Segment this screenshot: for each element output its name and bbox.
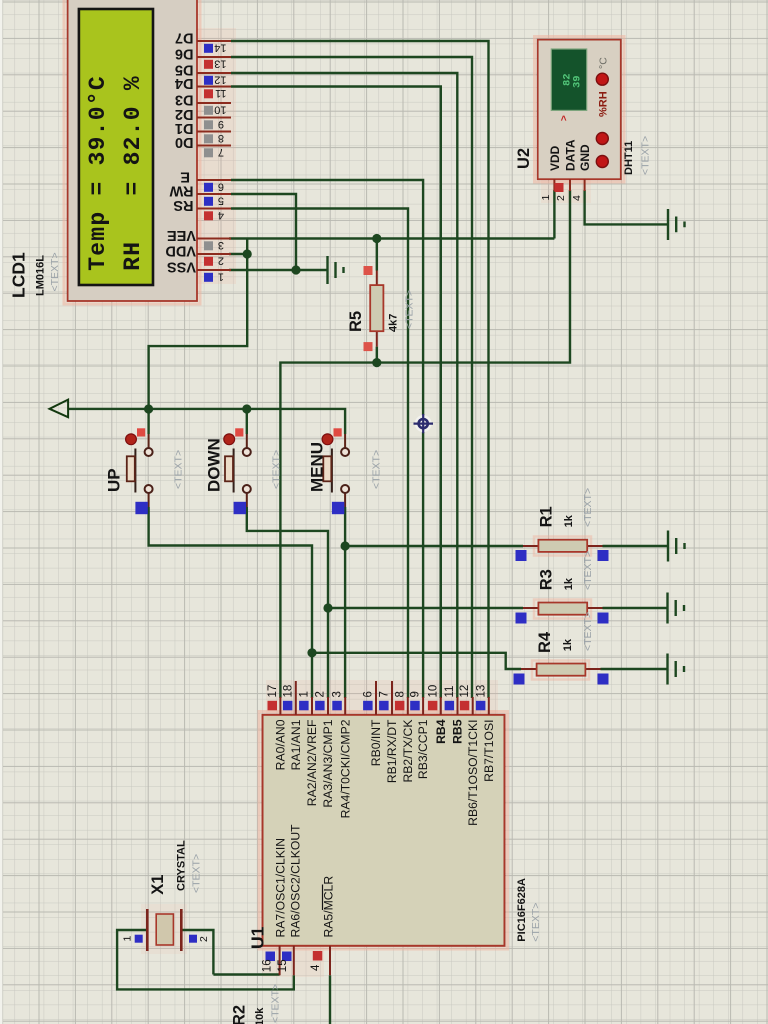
DHT11 pin name DATA xyxy=(564,139,578,171)
ground symbols xyxy=(328,209,685,685)
wire D4 LCD pin11 to PIC pin10 xyxy=(231,87,441,699)
svg-text:14: 14 xyxy=(214,42,226,54)
svg-text:DATA: DATA xyxy=(564,139,578,171)
svg-text:1: 1 xyxy=(218,271,224,283)
svg-text:VDD: VDD xyxy=(548,145,562,171)
LCD pin squares xyxy=(204,44,213,282)
svg-text:6: 6 xyxy=(218,181,224,193)
svg-text:D6: D6 xyxy=(175,46,194,62)
resistor R4 xyxy=(514,664,609,685)
label R2 xyxy=(230,1005,248,1024)
ground at R3 xyxy=(668,593,685,624)
svg-text:4: 4 xyxy=(218,209,224,221)
svg-text:<TEXT>: <TEXT> xyxy=(582,551,594,590)
button DOWN xyxy=(224,428,251,514)
resistor pin stubs xyxy=(377,271,603,670)
label R3 xyxy=(538,569,556,590)
DHT11 pin number 2 xyxy=(555,195,567,201)
DHT11 %RH label xyxy=(598,91,610,117)
label R3 1k xyxy=(563,577,575,590)
svg-text:<TEXT>: <TEXT> xyxy=(582,488,594,527)
svg-text:MENU: MENU xyxy=(308,442,327,492)
LCD1 LM016L display module xyxy=(68,0,197,301)
svg-text:39: 39 xyxy=(572,75,584,88)
LCD pin names D7..VSS xyxy=(165,30,196,275)
wire DOWN net to R3 xyxy=(328,607,523,609)
svg-text:3: 3 xyxy=(218,239,224,251)
svg-text:4k7: 4k7 xyxy=(388,314,400,332)
wire DHT11 DATA to PIC pin17 xyxy=(280,190,570,698)
U1 pin number 6 xyxy=(363,691,375,697)
svg-text:%RH: %RH xyxy=(598,91,610,117)
svg-text:PIC16F628A: PIC16F628A xyxy=(516,878,528,942)
U1 pin number 4 xyxy=(310,964,322,971)
svg-text:2: 2 xyxy=(315,691,327,697)
U1 pin name RB6/T1OSO/T1CKI xyxy=(466,720,480,826)
svg-text:U1: U1 xyxy=(248,926,268,949)
label U1 xyxy=(248,926,268,949)
U1 pin number 9 xyxy=(410,691,422,697)
U1 pin name RB7/T1OSI xyxy=(482,720,496,782)
svg-text:8: 8 xyxy=(394,691,406,697)
U1 top pin squares xyxy=(268,701,486,711)
DHT11 pin number 1 xyxy=(540,195,552,201)
svg-text:4: 4 xyxy=(571,195,583,201)
U1 pin name RA2/AN2/VREF xyxy=(305,720,319,807)
svg-text:RW: RW xyxy=(169,183,193,199)
svg-text:R1: R1 xyxy=(538,506,556,527)
wire PIC pin4 MCLR down xyxy=(329,975,331,1024)
U1 pin number 17 xyxy=(267,685,279,698)
origin marker xyxy=(414,414,434,433)
label R1 TEXT xyxy=(582,488,594,527)
svg-text:5: 5 xyxy=(218,195,224,207)
junction DOWN-R3 node xyxy=(323,603,332,612)
DHT11 LED dots xyxy=(596,73,608,167)
DHT11 pin name GND xyxy=(578,144,592,171)
junction RW-VSS node xyxy=(291,265,300,274)
svg-text:D0: D0 xyxy=(175,134,194,150)
svg-text:1: 1 xyxy=(299,691,311,697)
wire UP net to R4 xyxy=(312,653,521,669)
svg-text:UP: UP xyxy=(105,468,124,492)
label R1 xyxy=(538,506,556,527)
DHT11 pin number 4 xyxy=(571,195,583,201)
X1 pin2 square and number xyxy=(189,935,210,943)
resistor R5 xyxy=(364,266,384,351)
LCD pins block xyxy=(165,30,231,283)
wire UP button to PIC pin1 xyxy=(149,507,312,698)
svg-text:16: 16 xyxy=(261,959,273,972)
U1 pin number 7 xyxy=(379,691,391,697)
X1 pin1 square and number xyxy=(121,935,142,943)
svg-text:12: 12 xyxy=(214,74,226,86)
svg-text:15: 15 xyxy=(277,959,289,972)
wire MENU net to R1 xyxy=(345,545,523,547)
svg-text:17: 17 xyxy=(267,685,279,698)
svg-text:R4: R4 xyxy=(536,631,554,653)
wire crystal X1 pin2 to PIC pin16 xyxy=(181,930,279,975)
svg-text:Temp = 39.0°C: Temp = 39.0°C xyxy=(85,75,111,271)
svg-text:RB6/T1OSO/T1CKI: RB6/T1OSO/T1CKI xyxy=(466,720,480,826)
svg-text:RA1/AN1: RA1/AN1 xyxy=(289,719,303,770)
svg-text:1k: 1k xyxy=(562,638,574,651)
svg-text:1: 1 xyxy=(540,195,552,201)
button MENU xyxy=(322,428,349,514)
DHT11 reading 82 xyxy=(562,73,574,86)
svg-text:18: 18 xyxy=(282,685,294,698)
wire R4 to ground xyxy=(601,668,668,670)
svg-text:1k: 1k xyxy=(563,577,575,590)
label R3 TEXT xyxy=(582,551,594,590)
label UP xyxy=(105,468,124,492)
svg-text:RA5/MCLR: RA5/MCLR xyxy=(322,876,336,938)
wire D6 LCD pin13 to PIC pin12 xyxy=(231,57,472,698)
svg-text:D2: D2 xyxy=(175,106,194,122)
junction UP-R4 node xyxy=(307,648,316,657)
svg-text:RA7/OSC1/CLKIN: RA7/OSC1/CLKIN xyxy=(274,838,288,938)
svg-text:R3: R3 xyxy=(538,569,556,590)
DHT11 degC label xyxy=(597,57,609,69)
junction VDD-VEE node xyxy=(243,249,252,258)
svg-text:RB2/TX/CK: RB2/TX/CK xyxy=(401,720,415,783)
U1 pin name RB0/INT xyxy=(369,719,383,766)
U1 left pin stubs xyxy=(280,946,330,976)
wire R5 leads xyxy=(376,239,378,363)
svg-text:D7: D7 xyxy=(175,30,194,46)
ground at R1 xyxy=(668,531,685,562)
U1 pin name RB3/CCP1 xyxy=(416,719,430,779)
wire MENU button to PIC pin3 xyxy=(344,507,346,698)
label R5 TEXT xyxy=(403,290,415,329)
svg-text:9: 9 xyxy=(218,118,224,130)
svg-text:D4: D4 xyxy=(175,75,194,91)
U1 pin number 8 xyxy=(394,691,406,697)
svg-text:RB7/T1OSI: RB7/T1OSI xyxy=(482,720,496,782)
wire VSS ground line xyxy=(229,269,328,271)
svg-text:VEE: VEE xyxy=(167,227,196,243)
U1 pin number 2 xyxy=(315,691,327,697)
LCD text line1 Temp = 39.0°C xyxy=(85,75,111,271)
wire R3 to ground xyxy=(603,607,668,609)
svg-text:13: 13 xyxy=(214,58,226,70)
svg-text:10: 10 xyxy=(214,104,226,116)
label 4k7 xyxy=(388,314,400,332)
svg-text:1k: 1k xyxy=(563,514,575,527)
svg-text:<TEXT>: <TEXT> xyxy=(582,612,594,651)
wire D5 LCD pin12 to PIC pin11 xyxy=(231,73,457,698)
LCD text line2 RH = 82.0 % xyxy=(120,75,146,271)
microcontroller U1 PIC16F628A xyxy=(263,715,505,946)
svg-text:12: 12 xyxy=(459,685,471,698)
svg-text:U2: U2 xyxy=(515,148,533,169)
svg-text:<TEXT>: <TEXT> xyxy=(173,450,185,489)
U1 pin name RA5/MCLR xyxy=(322,876,336,938)
svg-text:2: 2 xyxy=(555,195,567,201)
wire VCC line to buttons xyxy=(68,409,345,434)
label UP TEXT xyxy=(173,450,185,489)
svg-text:VDD: VDD xyxy=(165,243,196,259)
label R2 10k xyxy=(254,1007,266,1024)
U1 pin name RB5 xyxy=(451,719,465,744)
wire R1 to ground xyxy=(603,545,669,547)
junction MENU-R1 node xyxy=(341,541,350,550)
button pin stubs xyxy=(149,434,346,507)
DHT11 pin name VDD xyxy=(548,145,562,171)
label X1 xyxy=(149,875,167,895)
label X1 TEXT xyxy=(191,854,203,893)
DHT11 pin stubs xyxy=(554,179,584,191)
ground at DHT11 GND xyxy=(668,209,685,240)
power arrow VCC xyxy=(50,400,69,418)
svg-text:RA2/AN2/VREF: RA2/AN2/VREF xyxy=(305,720,319,807)
label LM016L xyxy=(34,255,46,296)
LCD pin stubs xyxy=(197,41,231,270)
svg-text:RA4/T0CKI/CMP2: RA4/T0CKI/CMP2 xyxy=(338,719,352,818)
label R1 1k xyxy=(563,514,575,527)
U1 pin name RA7/OSC1/CLKIN xyxy=(274,838,288,938)
svg-text:LM016L: LM016L xyxy=(34,255,46,296)
svg-text:8: 8 xyxy=(218,132,224,144)
wire DHT11 GND to ground xyxy=(585,190,668,224)
svg-text:6: 6 xyxy=(363,691,375,697)
resistor R1 xyxy=(516,540,609,561)
DHT11 pin2 square xyxy=(555,183,564,192)
svg-text:RA3/AN3/CMP1: RA3/AN3/CMP1 xyxy=(321,719,335,807)
label DHT11 TEXT xyxy=(640,136,652,175)
svg-text:CRYSTAL: CRYSTAL xyxy=(175,840,187,891)
svg-text:9: 9 xyxy=(410,691,422,697)
U1 top pin stubs xyxy=(280,681,488,715)
label R4 1k xyxy=(562,638,574,651)
label DOWN xyxy=(205,438,224,492)
U1 pin number 3 xyxy=(332,691,344,697)
svg-text:4: 4 xyxy=(310,964,322,971)
wire RW LCD pin5 to VSS net xyxy=(231,194,296,270)
svg-text:<TEXT>: <TEXT> xyxy=(530,903,542,942)
U1 pin number 16 xyxy=(261,959,273,972)
junction VCC-DOWN node xyxy=(242,404,251,413)
DHT11 reading 39 xyxy=(572,75,584,88)
U1 pin name RB2/TX/CK xyxy=(401,720,415,783)
svg-text:VSS: VSS xyxy=(167,259,196,275)
svg-text:10k: 10k xyxy=(254,1007,266,1024)
svg-text:13: 13 xyxy=(475,685,487,698)
label LCD1 TEXT xyxy=(49,252,61,291)
crystal X1 xyxy=(147,909,181,951)
svg-text:2: 2 xyxy=(218,255,224,267)
label U2 xyxy=(515,148,533,169)
DHT11 sensor U2 xyxy=(538,40,621,180)
U1 pin number 10 xyxy=(427,685,439,698)
label R4 TEXT xyxy=(582,612,594,651)
svg-text:GND: GND xyxy=(578,144,592,171)
svg-text:R2: R2 xyxy=(230,1005,248,1024)
wire crystal X1 pin1 to PIC pin15 xyxy=(117,930,294,989)
svg-text:11: 11 xyxy=(215,87,226,99)
label PIC16F628A xyxy=(516,878,528,942)
U1 pin number 15 xyxy=(277,959,289,972)
button UP xyxy=(126,428,153,514)
U1 pin name RA4/T0CKI/CMP2 xyxy=(338,719,352,818)
resistor R3 xyxy=(516,603,609,624)
svg-text:RA0/AN0: RA0/AN0 xyxy=(274,719,288,770)
label DHT11 xyxy=(623,141,635,175)
svg-text:<TEXT>: <TEXT> xyxy=(371,450,383,489)
junction dots xyxy=(144,234,381,658)
wire E LCD pin6 to PIC pin9 xyxy=(231,180,423,698)
svg-text:<TEXT>: <TEXT> xyxy=(49,252,61,291)
label R5 xyxy=(347,311,365,332)
svg-text:<TEXT>: <TEXT> xyxy=(191,854,203,893)
svg-text:DOWN: DOWN xyxy=(205,438,224,492)
svg-text:R5: R5 xyxy=(347,311,365,332)
junction R5-VDD node xyxy=(372,234,381,243)
U1 pin name RB4 xyxy=(434,719,448,744)
wire DOWN button to PIC pin2 xyxy=(247,507,328,698)
wire VEE-VDD rail to DHT11 VDD xyxy=(149,190,555,409)
svg-text:RB4: RB4 xyxy=(434,719,448,744)
svg-text:RS: RS xyxy=(173,197,193,213)
svg-text:7: 7 xyxy=(379,691,391,697)
svg-text:10: 10 xyxy=(427,685,439,698)
LCD pin numbers 14..1 xyxy=(214,42,226,283)
U1 pin number 11 xyxy=(444,686,456,698)
svg-text:E: E xyxy=(180,169,190,185)
wire RS LCD pin4 to PIC pin8 xyxy=(231,209,408,699)
U1 pin number 13 xyxy=(475,685,487,698)
svg-text:<TEXT>: <TEXT> xyxy=(403,290,415,329)
svg-text:<TEXT>: <TEXT> xyxy=(271,450,283,489)
svg-text:D1: D1 xyxy=(175,120,194,136)
DHT11 arrow mark xyxy=(559,115,570,121)
svg-text:LCD1: LCD1 xyxy=(8,252,28,298)
svg-text:<TEXT>: <TEXT> xyxy=(640,136,652,175)
U1 pin number 12 xyxy=(459,685,471,698)
wire D7 LCD pin14 to PIC pin13 xyxy=(231,41,489,698)
svg-text:7: 7 xyxy=(218,146,224,158)
svg-text:RH = 82.0 %: RH = 82.0 % xyxy=(120,75,146,271)
ground at LCD VSS xyxy=(328,256,344,284)
svg-text:3: 3 xyxy=(332,691,344,697)
U1 pin name RA0/AN0 xyxy=(274,719,288,770)
U1 pin name RA1/AN1 xyxy=(289,719,303,770)
svg-text:RB5: RB5 xyxy=(451,719,465,744)
U1 pin name RA6/OSC2/CLKOUT xyxy=(289,824,303,938)
U1 pin number 1 xyxy=(299,691,311,697)
svg-text:2: 2 xyxy=(198,936,210,942)
svg-text:RB1/RX/DT: RB1/RX/DT xyxy=(385,719,399,783)
U1 pin number 18 xyxy=(282,685,294,698)
U1 pin name RB1/RX/DT xyxy=(385,719,399,783)
ground at R4 xyxy=(668,654,685,685)
label U1 TEXT xyxy=(530,903,542,942)
svg-text:1: 1 xyxy=(121,936,133,942)
svg-text:D3: D3 xyxy=(175,92,194,108)
svg-text:X1: X1 xyxy=(149,875,167,895)
svg-text:>: > xyxy=(559,115,570,121)
junction R5-DATA node xyxy=(372,358,381,367)
label MENU TEXT xyxy=(371,450,383,489)
label R4 xyxy=(536,631,554,653)
U1 pin name RA3/AN3/CMP1 xyxy=(321,719,335,807)
label CRYSTAL xyxy=(175,840,187,891)
label MENU xyxy=(308,442,327,492)
label LCD1 xyxy=(8,252,28,298)
svg-text:11: 11 xyxy=(444,686,456,698)
svg-text:RA6/OSC2/CLKOUT: RA6/OSC2/CLKOUT xyxy=(289,824,303,938)
svg-text:°C: °C xyxy=(597,57,609,69)
label R2 TEXT xyxy=(270,984,282,1023)
svg-text:RB3/CCP1: RB3/CCP1 xyxy=(416,719,430,779)
U1 left pin squares xyxy=(266,951,323,961)
svg-text:RB0/INT: RB0/INT xyxy=(369,719,383,766)
svg-text:<TEXT>: <TEXT> xyxy=(270,984,282,1023)
label DOWN TEXT xyxy=(271,450,283,489)
junction VCC-UP node xyxy=(144,404,153,413)
svg-text:DHT11: DHT11 xyxy=(623,141,635,175)
